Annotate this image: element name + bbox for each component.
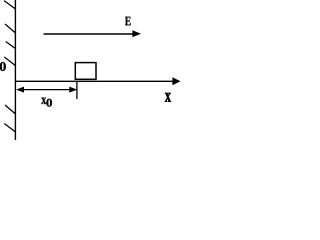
distance x0 left arrowhead: [16, 87, 24, 93]
wall (fixed support): [14, 0, 16, 140]
wall hatch 2: [5, 24, 16, 33]
wall hatch 3: [6, 42, 16, 49]
block (box) on axis: [75, 63, 96, 80]
label subscript 0 of x0: [46, 99, 52, 107]
distance x0 double arrow shaft: [22, 89, 71, 91]
x axis line: [15, 80, 173, 82]
wall hatch 6: [4, 124, 15, 133]
origin label 0: [0, 62, 6, 71]
wall hatch 4: [4, 57, 15, 66]
distance x0 right arrowhead: [69, 87, 77, 93]
wall hatch 5: [5, 105, 16, 114]
field E arrow shaft: [44, 33, 134, 35]
tick below block left edge: [76, 82, 78, 99]
field E arrowhead: [132, 30, 141, 37]
label x of x0: [41, 98, 46, 104]
label E: [125, 17, 131, 26]
wall hatch 1: [4, 1, 16, 9]
label X: [165, 93, 171, 102]
x axis arrowhead: [172, 77, 180, 85]
